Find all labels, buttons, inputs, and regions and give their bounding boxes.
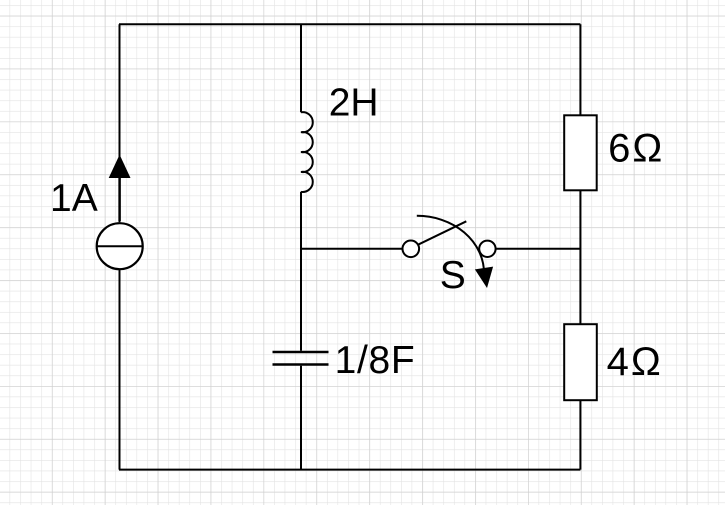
wire right branch upper: [579, 24, 581, 115]
capacitor C 1/8F: [273, 352, 329, 365]
current source 1A: [97, 223, 143, 269]
wire middle branch upper: [300, 24, 302, 112]
svg-text:4Ω: 4Ω: [607, 340, 663, 384]
svg-text:2H: 2H: [329, 82, 379, 125]
wire right branch lower: [579, 400, 581, 469]
resistor 4Ω: [564, 324, 597, 400]
wire bottom rail: [119, 469, 580, 471]
wire middle branch lower: [300, 366, 302, 470]
switch S: [403, 216, 496, 288]
current direction arrow: [109, 155, 131, 221]
inductor L 2H: [301, 112, 313, 192]
wire switch right lead: [496, 248, 581, 250]
wire left branch upper: [119, 24, 121, 222]
wire switch left lead: [301, 248, 402, 250]
wire right branch middle: [579, 190, 581, 324]
svg-text:1A: 1A: [50, 177, 98, 220]
wire top rail: [119, 23, 580, 25]
wire left branch lower: [119, 269, 121, 469]
wire middle branch mid: [300, 192, 302, 351]
svg-text:1/8F: 1/8F: [335, 339, 416, 382]
svg-text:6Ω: 6Ω: [608, 127, 664, 171]
svg-text:S: S: [440, 254, 466, 297]
resistor 6Ω: [564, 115, 597, 190]
